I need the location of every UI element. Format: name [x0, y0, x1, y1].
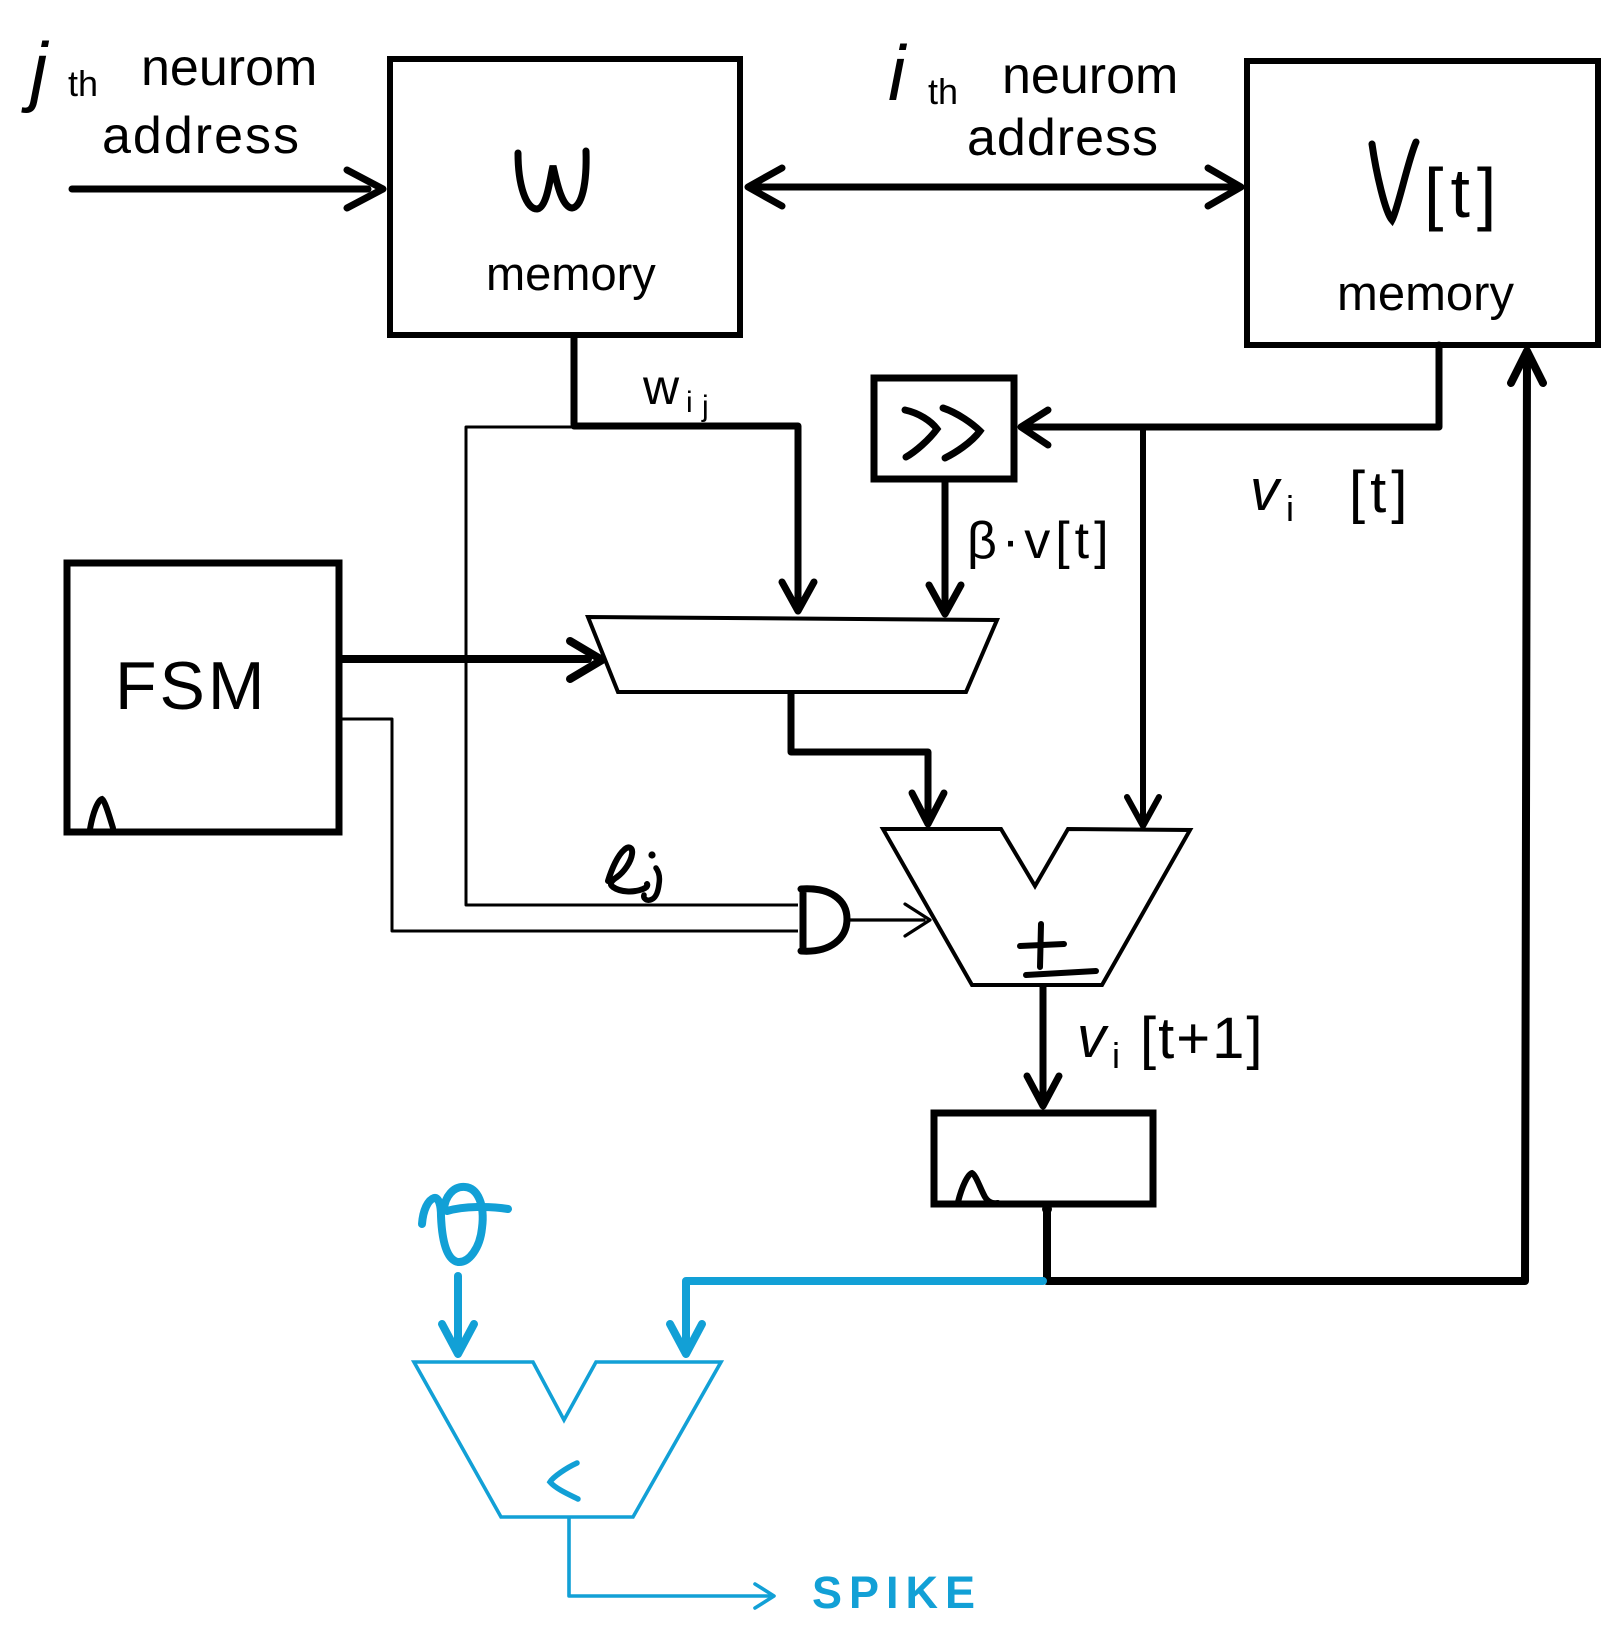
comparator (blue ALU shape) — [414, 1362, 721, 1517]
block V[t] memory — [1247, 61, 1598, 345]
wire branch from W output to AND gate input A — [466, 427, 798, 905]
svg-text:th: th — [68, 63, 98, 104]
wire comparator output to SPIKE — [569, 1518, 774, 1608]
label V[t] — [1372, 142, 1503, 232]
label theta — [422, 1187, 508, 1262]
wire shifter output down to multiplexer — [929, 480, 961, 614]
wire junction branch down to ALU right input — [1127, 427, 1159, 826]
label j-th neuron address — [21, 26, 317, 165]
label less-than — [550, 1463, 578, 1499]
wire register output — [1043, 1205, 1051, 1280]
svg-text:i: i — [686, 386, 693, 419]
svg-text:v: v — [1077, 1005, 1109, 1070]
svg-text:memory: memory — [1337, 267, 1514, 321]
svg-text:v: v — [1250, 458, 1282, 523]
svg-text:neurom: neurom — [141, 39, 317, 97]
label vi[t+1] — [1077, 1005, 1264, 1076]
svg-text:[t]: [t] — [1424, 154, 1503, 232]
label plus-minus — [1020, 924, 1096, 975]
AND gate — [801, 889, 847, 951]
svg-text:th: th — [928, 71, 958, 112]
svg-text:FSM: FSM — [115, 648, 268, 724]
wire ALU output to register — [1027, 987, 1059, 1106]
wire FSM to AND gate input B — [340, 719, 798, 931]
svg-text:[t+1]: [t+1] — [1140, 1006, 1264, 1071]
wire feedback to V[t] memory — [1047, 351, 1543, 1281]
svg-text:address: address — [102, 107, 301, 165]
svg-text:memory: memory — [486, 247, 656, 300]
svg-text:w: w — [642, 359, 680, 415]
label Wij — [642, 359, 709, 423]
wire AND gate output to ALU — [848, 904, 930, 936]
svg-text:j: j — [701, 390, 709, 423]
register — [934, 1113, 1153, 1204]
label >> chevrons — [905, 408, 980, 458]
clock symbol FSM — [90, 799, 113, 829]
wire Wij to multiplexer input — [574, 426, 814, 611]
wire FSM select to multiplexer — [340, 641, 602, 679]
wire blue from junction to comparator right input — [670, 1281, 1043, 1354]
clock symbol register — [958, 1173, 998, 1203]
wire jth neuron address arrow into W memory — [72, 170, 383, 208]
ALU adder-subtractor — [883, 829, 1190, 985]
block right shifter >> — [874, 378, 1014, 479]
svg-text:address: address — [967, 109, 1159, 167]
multiplexer (trapezoid) — [588, 617, 997, 692]
wire i-th neuron address bidirectional bus between W memory and V memory — [748, 168, 1241, 206]
label lj — [608, 847, 659, 900]
wire W memory data output — [571, 336, 578, 424]
label vi[t] — [1250, 458, 1412, 529]
svg-text:SPIKE: SPIKE — [812, 1567, 982, 1618]
node register output junction — [1042, 1204, 1052, 1214]
wire V[t] output down-left to shifter with junction — [1021, 345, 1439, 445]
label i-th neuron address — [888, 29, 1178, 167]
svg-text:i: i — [1286, 488, 1294, 529]
wire blue theta to comparator left input — [442, 1276, 474, 1354]
label W — [518, 151, 586, 209]
svg-text:i: i — [888, 29, 908, 117]
svg-text:[t]: [t] — [1349, 460, 1412, 525]
block FSM — [67, 563, 339, 832]
wire multiplexer output to ALU left input — [791, 694, 944, 824]
svg-text:i: i — [1112, 1035, 1120, 1076]
svg-text:β·v[t]: β·v[t] — [967, 512, 1114, 570]
block W memory — [390, 59, 740, 335]
svg-text:neurom: neurom — [1002, 47, 1178, 105]
